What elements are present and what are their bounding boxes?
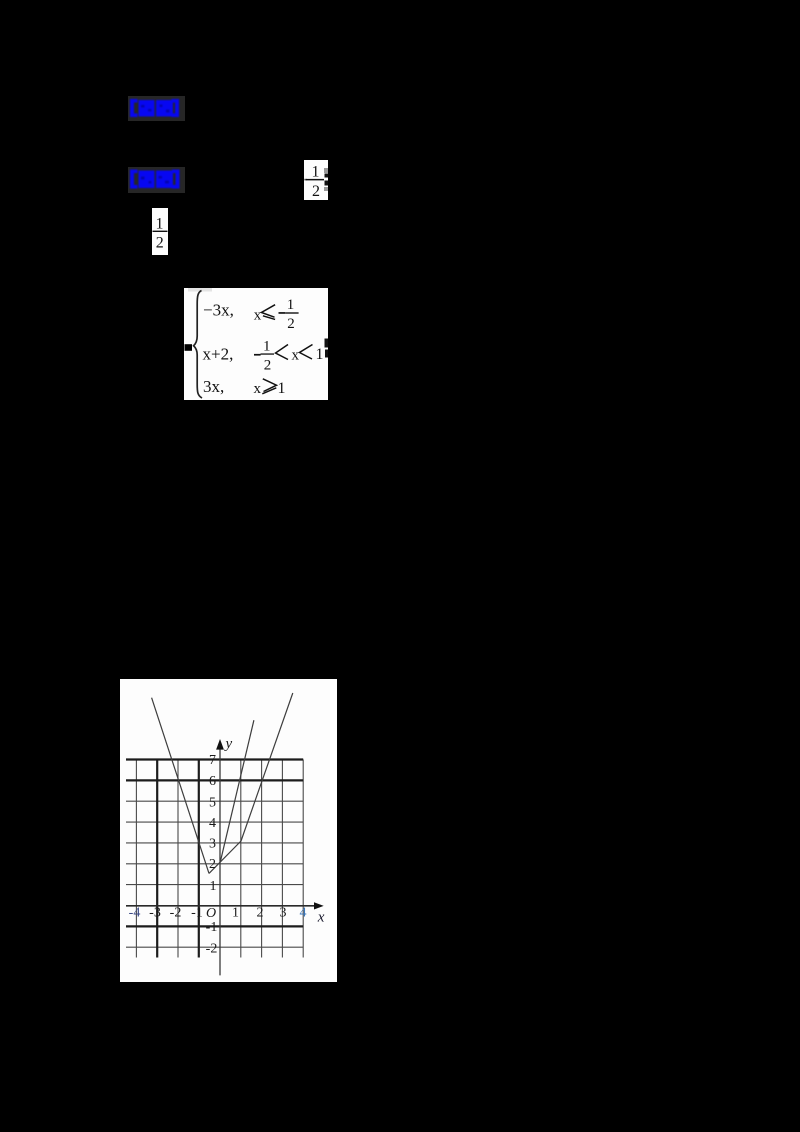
x-axis arrow (314, 902, 324, 909)
y tick labels (206, 753, 218, 957)
svg-text:1: 1 (210, 879, 217, 894)
svg-text:3: 3 (280, 906, 287, 921)
svg-text:2: 2 (257, 906, 264, 921)
svg-text:3x,: 3x, (203, 377, 224, 396)
fraction bar (153, 231, 168, 232)
y-axis (219, 747, 221, 975)
svg-text:1: 1 (232, 906, 239, 921)
svg-text:1: 1 (316, 346, 324, 363)
svg-text:-2: -2 (170, 906, 182, 921)
svg-text:2: 2 (209, 857, 216, 872)
svg-text:-3: -3 (149, 906, 161, 921)
curve: y=x+2 branch (209, 841, 241, 873)
bold vertical gridlines x=-3,-1 (157, 760, 199, 958)
svg-text:5: 5 (209, 796, 216, 811)
answer label block 1 (blue highlighted) (128, 96, 185, 121)
y-axis arrow (216, 739, 224, 750)
svg-text:7: 7 (209, 753, 216, 768)
fraction bar with leading minus (304, 179, 307, 181)
svg-text:1: 1 (156, 216, 164, 233)
clipped glyph at right edge (325, 339, 329, 348)
piecewise function formula image (184, 288, 328, 400)
curve: y=3x branch (241, 693, 293, 841)
svg-text:2: 2 (156, 235, 164, 252)
svg-text:4: 4 (209, 816, 216, 831)
bold horizontal gridlines y=7,6,-1 (126, 760, 303, 927)
formula image: 1/2 fraction (152, 208, 168, 255)
row 2 condition: -1/2 < x < 1 (254, 354, 261, 356)
svg-text:1: 1 (312, 164, 320, 181)
svg-text:−3x,: −3x, (203, 301, 234, 320)
equals fragment at left edge (185, 344, 193, 351)
svg-text:1: 1 (287, 297, 295, 313)
svg-text:-1: -1 (191, 906, 203, 921)
x tick labels (129, 906, 307, 921)
curly brace (188, 288, 212, 292)
curve: middle steep line through (0,2) (220, 720, 254, 862)
svg-text:-4: -4 (129, 906, 141, 921)
thin horizontal gridlines y=5,4,3,2,1,-2 (126, 801, 303, 947)
svg-text:4: 4 (300, 906, 307, 921)
svg-text:-1: -1 (206, 920, 218, 935)
svg-text:2: 2 (312, 183, 320, 200)
svg-text:x: x (254, 381, 262, 397)
analysis label block 2 (blue highlighted) (128, 167, 185, 193)
svg-text:6: 6 (209, 774, 216, 789)
svg-text:x: x (254, 307, 262, 323)
svg-text:O: O (206, 906, 216, 921)
svg-text:-2: -2 (206, 942, 218, 957)
formula image: -1/2 fraction (304, 160, 328, 200)
svg-text:1: 1 (263, 339, 271, 355)
curve: y=-3x branch (152, 698, 209, 874)
svg-text:x+2,: x+2, (203, 345, 234, 364)
svg-text:3: 3 (209, 837, 216, 852)
svg-text:x: x (292, 348, 300, 364)
coordinate-plane graph image (120, 679, 337, 982)
svg-text:1: 1 (278, 380, 286, 397)
svg-text:y: y (224, 736, 233, 752)
svg-text:x: x (317, 910, 325, 926)
clipped glyphs at right edge (324, 168, 328, 173)
svg-text:2: 2 (287, 316, 295, 332)
svg-text:2: 2 (264, 358, 272, 374)
x-axis (126, 905, 316, 907)
thin vertical gridlines x=-4,-2,1,2,3,4 (136, 760, 303, 958)
